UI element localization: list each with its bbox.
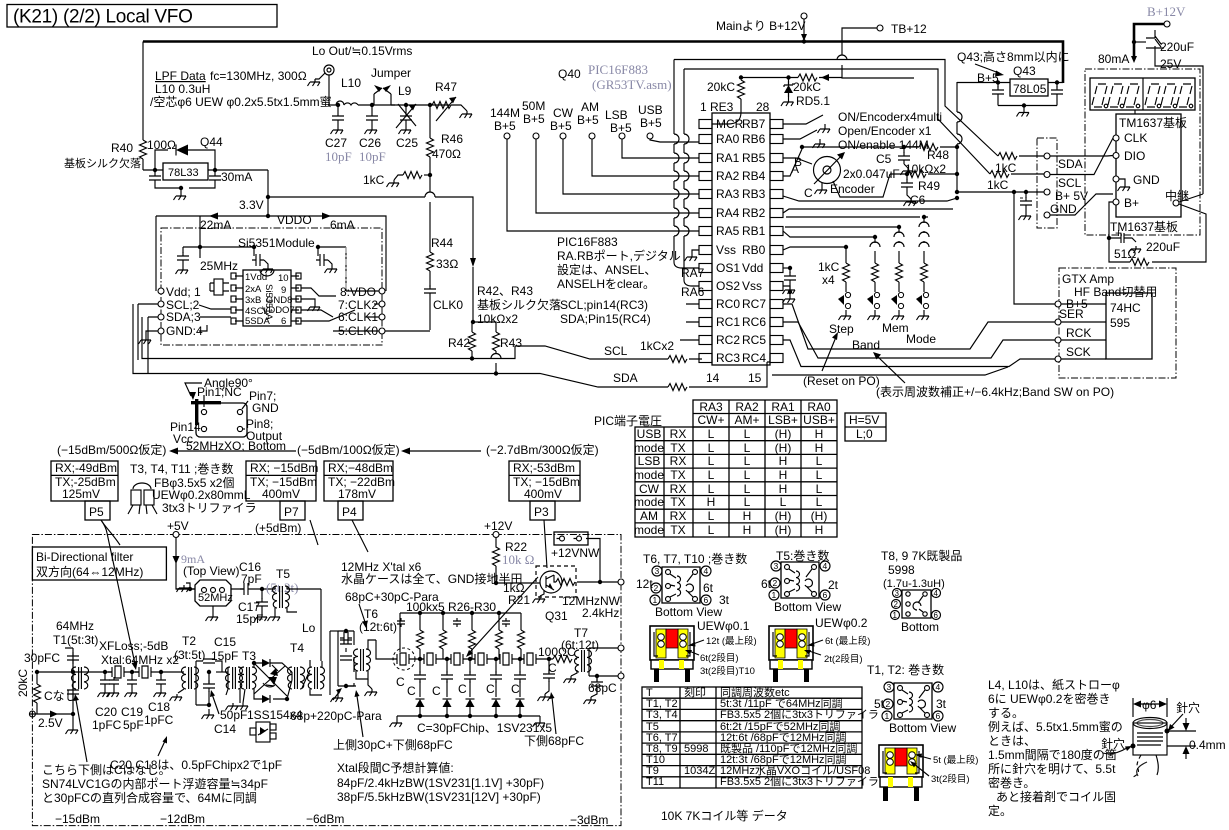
svg-text:2.4kHz: 2.4kHz bbox=[582, 606, 619, 620]
bottom view T8 bbox=[902, 590, 931, 618]
table P5 bbox=[51, 461, 118, 520]
wire main to T3 bbox=[216, 671, 228, 673]
svg-text:38pF/5.5kHzBW(1SV231[12V] +30p: 38pF/5.5kHzBW(1SV231[12V] +30pF) bbox=[337, 790, 541, 804]
svg-text:20kC: 20kC bbox=[707, 80, 735, 94]
svg-text:C15: C15 bbox=[214, 635, 236, 649]
svg-text:φ6: φ6 bbox=[1142, 698, 1157, 712]
svg-text:R44: R44 bbox=[431, 236, 453, 250]
svg-text:12t (最上段): 12t (最上段) bbox=[706, 635, 757, 647]
svg-text:RA0: RA0 bbox=[807, 400, 831, 414]
svg-text:TX: TX bbox=[670, 468, 685, 482]
0.4mm dimension bbox=[1167, 718, 1196, 759]
ground 78L05 bbox=[998, 106, 1057, 110]
wire RC6 to RCK bbox=[783, 322, 1056, 358]
svg-text:Si5351Module: Si5351Module bbox=[238, 236, 315, 250]
svg-text:RB6: RB6 bbox=[742, 132, 766, 146]
svg-text:RB5: RB5 bbox=[742, 151, 766, 165]
svg-text:(H): (H) bbox=[775, 509, 792, 523]
svg-text:RC7: RC7 bbox=[742, 297, 766, 311]
svg-text:L: L bbox=[816, 495, 823, 509]
transformer T2 bbox=[182, 667, 199, 689]
svg-text:下側68pFC: 下側68pFC bbox=[524, 734, 584, 748]
svg-text:XFLoss;-5dB: XFLoss;-5dB bbox=[99, 639, 168, 653]
regulator 78L33 bbox=[163, 163, 208, 180]
svg-text:mode: mode bbox=[634, 523, 664, 537]
svg-text:ON/enable 144M: ON/enable 144M bbox=[838, 138, 929, 152]
wire six bus lines to switches bbox=[783, 196, 957, 201]
svg-text:Lo Out/≒0.15Vrms: Lo Out/≒0.15Vrms bbox=[312, 44, 412, 58]
wire CW to RA3 bbox=[563, 139, 699, 194]
svg-text:15: 15 bbox=[748, 371, 762, 385]
resistor 51ohm bbox=[1130, 259, 1149, 266]
wire B+5 bus vertical bbox=[957, 82, 1044, 192]
svg-text:51Ω: 51Ω bbox=[1114, 247, 1136, 261]
transformer T1 bbox=[65, 648, 73, 714]
svg-text:L: L bbox=[744, 441, 751, 455]
capacitor C25 variable bbox=[405, 105, 407, 112]
wire AM to RA2 bbox=[592, 139, 699, 176]
svg-text:H: H bbox=[707, 495, 716, 509]
pin 7 CLK2 bbox=[379, 301, 385, 307]
svg-text:84pF/2.4kHzBW(1SV231[1.1V] +30: 84pF/2.4kHzBW(1SV231[1.1V] +30pF) bbox=[337, 776, 544, 790]
svg-text:L;0: L;0 bbox=[856, 427, 873, 441]
bobbin T6 drawing bbox=[650, 626, 694, 682]
IC pin boxes bbox=[699, 120, 783, 363]
wire RA7 bbox=[674, 60, 699, 269]
terminal 2.5V bbox=[29, 711, 35, 717]
svg-text:CW+: CW+ bbox=[698, 413, 725, 427]
svg-text:(Top View): (Top View) bbox=[183, 564, 239, 578]
wire B+12V rail bbox=[143, 42, 1063, 84]
svg-text:10: 10 bbox=[278, 273, 289, 284]
svg-text:mode: mode bbox=[634, 468, 664, 482]
svg-text:Band: Band bbox=[852, 338, 880, 352]
svg-text:RC5: RC5 bbox=[742, 333, 766, 347]
svg-text:C27: C27 bbox=[325, 136, 347, 150]
svg-text:Q40: Q40 bbox=[558, 67, 581, 81]
capacitor 220uF 25V bbox=[1134, 41, 1146, 43]
svg-text:RB7: RB7 bbox=[742, 117, 766, 131]
svg-text:SCL: SCL bbox=[604, 344, 628, 358]
svg-text:mode: mode bbox=[634, 495, 664, 509]
svg-text:L: L bbox=[816, 482, 823, 496]
GND8 ground bbox=[301, 299, 315, 304]
connector dash-dot box bbox=[1037, 138, 1057, 228]
wire SCL bus lower bbox=[133, 304, 767, 387]
svg-text:12t: 12t bbox=[636, 577, 653, 591]
svg-text:1kCx2: 1kCx2 bbox=[640, 339, 674, 353]
svg-text:T3, T4: T3, T4 bbox=[646, 709, 678, 721]
svg-text:3: 3 bbox=[895, 589, 900, 598]
svg-text:RX: RX bbox=[670, 454, 687, 468]
svg-text:1kC: 1kC bbox=[995, 161, 1017, 175]
IC pin stubs bbox=[235, 276, 299, 321]
terminal RCK bbox=[1055, 337, 1061, 343]
svg-text:T2: T2 bbox=[182, 634, 196, 648]
switch lever RB7 bbox=[783, 115, 825, 126]
svg-text:CLK: CLK bbox=[1124, 131, 1147, 145]
svg-text:6に UEWφ0.2を密巻き: 6に UEWφ0.2を密巻き bbox=[988, 691, 1110, 706]
svg-text:Vdd; 1: Vdd; 1 bbox=[166, 285, 201, 299]
svg-text:30pFC: 30pFC bbox=[24, 651, 60, 665]
svg-text:TX: TX bbox=[670, 523, 685, 537]
filter title box bbox=[32, 547, 166, 580]
svg-text:L: L bbox=[708, 441, 715, 455]
svg-text:6: 6 bbox=[704, 595, 709, 605]
svg-text:20kC: 20kC bbox=[793, 80, 821, 94]
svg-text:1kC: 1kC bbox=[363, 173, 385, 187]
wire T6 to ladder bbox=[376, 640, 394, 659]
capacitor at 78L33 output bbox=[214, 170, 216, 173]
capacitor C27 bbox=[337, 105, 339, 112]
svg-text:Mem: Mem bbox=[882, 321, 909, 335]
svg-text:1Vdd: 1Vdd bbox=[245, 272, 267, 283]
svg-text:Vss: Vss bbox=[742, 279, 762, 293]
svg-text:RX;-49dBm: RX;-49dBm bbox=[55, 461, 117, 475]
svg-text:x4: x4 bbox=[822, 273, 835, 287]
svg-text:10K 7Kコイル等 データ: 10K 7Kコイル等 データ bbox=[661, 808, 788, 823]
svg-text:78L05: 78L05 bbox=[1013, 82, 1047, 96]
svg-text:L: L bbox=[744, 495, 751, 509]
svg-text:L: L bbox=[744, 427, 751, 441]
svg-text:mode: mode bbox=[634, 441, 664, 455]
svg-text:100ΩC: 100ΩC bbox=[538, 645, 576, 659]
svg-text:L: L bbox=[708, 523, 715, 537]
svg-text:L: L bbox=[744, 468, 751, 482]
capacitor C26 bbox=[371, 105, 373, 112]
terminal +12V bbox=[493, 532, 499, 538]
svg-text:B+ 5V: B+ 5V bbox=[1055, 189, 1088, 203]
svg-text:TX: TX bbox=[670, 441, 685, 455]
T6 input cap bank bbox=[338, 631, 354, 686]
switch Step bbox=[838, 292, 851, 308]
wire RB4 to encoder B line bbox=[783, 149, 802, 176]
svg-text:+5V: +5V bbox=[167, 519, 189, 533]
svg-text:L: L bbox=[708, 482, 715, 496]
svg-text:C=30pFChip、1SV231x5: C=30pFChip、1SV231x5 bbox=[417, 721, 552, 735]
svg-text:1.5mm間隔で180度の箇: 1.5mm間隔で180度の箇 bbox=[988, 747, 1117, 762]
svg-text:10pF: 10pF bbox=[325, 149, 352, 164]
coil leads bbox=[1133, 755, 1141, 777]
svg-text:6: 6 bbox=[823, 590, 828, 600]
svg-text:4: 4 bbox=[704, 566, 709, 576]
capacitor Vdd bypass bbox=[783, 267, 790, 269]
svg-text:SDA: SDA bbox=[613, 371, 638, 385]
svg-text:P5: P5 bbox=[89, 505, 104, 519]
svg-text:1: 1 bbox=[893, 611, 898, 620]
svg-text:L10: L10 bbox=[341, 76, 361, 90]
capacitor bypass right bbox=[318, 247, 346, 256]
svg-text:C: C bbox=[458, 682, 467, 696]
crystal X2 64MHz bbox=[135, 666, 155, 678]
svg-text:USB: USB bbox=[637, 427, 662, 441]
svg-text:SER: SER bbox=[1059, 307, 1084, 321]
svg-text:R40: R40 bbox=[111, 141, 133, 155]
wire main 64M line bbox=[37, 671, 184, 673]
svg-text:33Ω: 33Ω bbox=[436, 257, 458, 271]
svg-text:220uF: 220uF bbox=[1146, 240, 1180, 254]
svg-text:OS2: OS2 bbox=[716, 279, 740, 293]
svg-text:C: C bbox=[804, 186, 813, 200]
capacitor C14 bbox=[208, 672, 210, 712]
svg-text:Q43: Q43 bbox=[1013, 64, 1036, 78]
capacitor C6 bbox=[905, 172, 909, 176]
IC U40 PIC16F883 body bbox=[712, 113, 770, 365]
svg-text:/空芯φ6 UEW φ0.2x5.5tx1.5mm蜜: /空芯φ6 UEW φ0.2x5.5tx1.5mm蜜 bbox=[150, 94, 332, 109]
svg-text:UEWφ0.1: UEWφ0.1 bbox=[697, 619, 750, 633]
svg-text:3t: 3t bbox=[936, 697, 947, 711]
resistor R29 bbox=[496, 630, 503, 649]
svg-text:ANSELHをclear。: ANSELHをclear。 bbox=[557, 277, 655, 291]
svg-text:L: L bbox=[744, 454, 751, 468]
transistor Q31 bbox=[536, 566, 576, 597]
svg-text:RB0: RB0 bbox=[742, 243, 766, 257]
svg-text:Bottom View: Bottom View bbox=[655, 605, 722, 619]
table P3 bbox=[509, 461, 580, 520]
transformer T6 bbox=[354, 649, 371, 671]
svg-text:T5:巻き数: T5:巻き数 bbox=[776, 548, 829, 563]
svg-text:RA.RBポート,デジタル: RA.RBポート,デジタル bbox=[557, 248, 681, 263]
svg-text:L: L bbox=[816, 468, 823, 482]
svg-text:C6: C6 bbox=[910, 193, 926, 207]
svg-text:RB3: RB3 bbox=[742, 187, 766, 201]
svg-text:T11: T11 bbox=[646, 776, 664, 788]
capacitor module bypass left bbox=[183, 247, 200, 253]
crystal osc 52MHz bbox=[195, 580, 231, 606]
svg-text:RA5: RA5 bbox=[716, 224, 740, 238]
svg-text:SCL: SCL bbox=[1058, 176, 1082, 190]
svg-text:C: C bbox=[486, 682, 495, 696]
table P7 bbox=[246, 461, 316, 520]
wire 50M to RA4 bbox=[536, 139, 699, 213]
svg-text:UEWφ0.2: UEWφ0.2 bbox=[815, 616, 868, 630]
svg-text:3t(2段目)T10: 3t(2段目)T10 bbox=[700, 665, 755, 677]
svg-text:5t (最上段): 5t (最上段) bbox=[933, 754, 978, 766]
resistor 20kC bias bbox=[34, 684, 41, 703]
svg-text:2: 2 bbox=[894, 600, 899, 609]
svg-text:SCK: SCK bbox=[1066, 345, 1091, 359]
svg-text:68p+220pC-Para: 68p+220pC-Para bbox=[290, 709, 382, 723]
svg-text:RB4: RB4 bbox=[742, 169, 766, 183]
svg-text:5998: 5998 bbox=[684, 743, 708, 755]
svg-text:上側30pC+下側68pFC: 上側30pC+下側68pFC bbox=[333, 738, 453, 752]
svg-text:6: 6 bbox=[281, 316, 286, 327]
capacitor B+5V rail bbox=[1024, 190, 1028, 194]
svg-text:CW: CW bbox=[639, 482, 660, 496]
svg-text:50pF: 50pF bbox=[220, 708, 247, 722]
resistor R49 line bbox=[890, 173, 957, 175]
pin2 SCL bbox=[158, 301, 164, 307]
svg-text:LSB: LSB bbox=[605, 108, 628, 122]
svg-text:Bottom View: Bottom View bbox=[774, 600, 841, 614]
pin 6 CLK1 bbox=[379, 314, 385, 320]
svg-text:RA1: RA1 bbox=[716, 151, 740, 165]
wire CLK0 chain down bbox=[429, 175, 431, 252]
svg-text:所に針穴を明けて、5.5t: 所に針穴を明けて、5.5t bbox=[988, 761, 1116, 776]
svg-text:8:VDO: 8:VDO bbox=[340, 285, 376, 299]
svg-text:5pF: 5pF bbox=[123, 718, 144, 732]
junction dots on LPF rail bbox=[336, 103, 340, 107]
svg-text:R46: R46 bbox=[441, 132, 463, 146]
svg-text:C26: C26 bbox=[359, 136, 381, 150]
svg-text:−3dBm: −3dBm bbox=[570, 813, 608, 827]
svg-text:RX;−48dBm: RX;−48dBm bbox=[328, 461, 393, 475]
wire left vertical from rail bbox=[142, 42, 144, 141]
svg-text:+12VNW: +12VNW bbox=[551, 546, 600, 560]
svg-text:3tx3トリファイラ: 3tx3トリファイラ bbox=[162, 501, 257, 515]
svg-text:Bi-Directional filter: Bi-Directional filter bbox=[36, 550, 133, 564]
svg-text:RB1: RB1 bbox=[742, 224, 766, 238]
svg-text:C: C bbox=[396, 675, 405, 689]
svg-text:Jumper: Jumper bbox=[371, 66, 411, 80]
svg-text:L: L bbox=[708, 454, 715, 468]
svg-text:Cなし: Cなし bbox=[44, 689, 77, 703]
wire SDA to DIO bbox=[1050, 155, 1113, 158]
resistor R30 bbox=[518, 630, 525, 649]
switch lever RB6 bbox=[783, 130, 820, 141]
svg-text:こちら下側はCはなし。: こちら下側はCはなし。 bbox=[42, 763, 171, 777]
svg-text:30mA: 30mA bbox=[221, 170, 252, 184]
svg-text:RX: RX bbox=[670, 427, 687, 441]
svg-text:RCK: RCK bbox=[1066, 326, 1091, 340]
svg-text:RA4: RA4 bbox=[716, 206, 740, 220]
capacitor rail bypass bbox=[397, 618, 405, 627]
pin1 label bbox=[158, 288, 164, 294]
svg-text:Bottom: Bottom bbox=[901, 620, 939, 634]
svg-text:B+: B+ bbox=[1124, 196, 1139, 210]
svg-text:RC6: RC6 bbox=[742, 315, 766, 329]
svg-text:6t (最上段): 6t (最上段) bbox=[825, 635, 870, 647]
module dashed bottom note: gray verticals bbox=[345, 247, 347, 291]
svg-text:DIO: DIO bbox=[1124, 149, 1145, 163]
svg-text:RC1: RC1 bbox=[716, 315, 740, 329]
svg-text:6: 6 bbox=[936, 711, 941, 721]
svg-text:RC0: RC0 bbox=[716, 297, 740, 311]
svg-text:H: H bbox=[815, 523, 824, 537]
ferrite bead drawing bbox=[131, 490, 141, 505]
svg-text:3: 3 bbox=[774, 561, 779, 571]
svg-text:1: 1 bbox=[653, 595, 658, 605]
svg-text:L: L bbox=[708, 468, 715, 482]
svg-text:LPF Data: LPF Data bbox=[155, 69, 206, 83]
svg-text:6t:2t /15pFで52MHz同調: 6t:2t /15pFで52MHz同調 bbox=[720, 719, 840, 733]
svg-text:(3t:5t): (3t:5t) bbox=[174, 648, 205, 662]
svg-text:Lo: Lo bbox=[302, 621, 316, 635]
transformer T7 bbox=[575, 650, 592, 672]
svg-text:3t(2段目): 3t(2段目) bbox=[931, 773, 970, 785]
svg-text:14: 14 bbox=[706, 371, 720, 385]
svg-text:T5: T5 bbox=[276, 567, 290, 581]
capacitor 78L05 out bbox=[997, 83, 999, 88]
wire switch verticals with humps bbox=[922, 215, 926, 219]
svg-text:2t: 2t bbox=[828, 578, 839, 592]
svg-text:C: C bbox=[407, 684, 416, 698]
svg-text:6t(2段目): 6t(2段目) bbox=[700, 652, 739, 664]
ground Vss right bbox=[783, 286, 790, 290]
bobbin T5 drawing bbox=[769, 626, 813, 682]
svg-text:L9: L9 bbox=[398, 84, 412, 98]
svg-text:L10 0.3uH: L10 0.3uH bbox=[155, 82, 210, 96]
bottom view T5 bbox=[781, 562, 819, 598]
svg-text:5t:3t /11pF で64MHz同調: 5t:3t /11pF で64MHz同調 bbox=[720, 696, 843, 710]
switch Mode bbox=[916, 292, 929, 308]
crystal ladder X3..X8 bbox=[393, 653, 413, 665]
svg-text:H: H bbox=[815, 441, 824, 455]
svg-text:(H): (H) bbox=[775, 427, 792, 441]
crystal X1 64MHz bbox=[108, 666, 128, 678]
svg-text:(H): (H) bbox=[775, 523, 792, 537]
wire USB to RA0 bbox=[650, 139, 699, 142]
svg-text:T8, 9 7K既製品: T8, 9 7K既製品 bbox=[881, 549, 962, 563]
svg-text:RD5.1: RD5.1 bbox=[796, 94, 830, 108]
wire +5V feed bbox=[176, 538, 195, 590]
svg-text:R47: R47 bbox=[435, 80, 457, 94]
svg-text:12t:6t /68pFで12MHz同調: 12t:6t /68pFで12MHz同調 bbox=[720, 730, 847, 744]
svg-text:5t: 5t bbox=[874, 697, 885, 711]
svg-text:144M: 144M bbox=[490, 106, 520, 120]
svg-text:B+5: B+5 bbox=[494, 119, 516, 133]
svg-text:6t: 6t bbox=[761, 577, 772, 591]
svg-text:PIC16F883: PIC16F883 bbox=[588, 62, 648, 77]
svg-text:T4: T4 bbox=[290, 641, 304, 655]
svg-text:Bottom View: Bottom View bbox=[889, 721, 956, 735]
svg-text:(H): (H) bbox=[775, 441, 792, 455]
svg-text:基板シルク欠落: 基板シルク欠落 bbox=[477, 297, 561, 312]
svg-text:80mA: 80mA bbox=[1098, 52, 1129, 66]
svg-text:T6, T7, T10 ;巻き数: T6, T7, T10 ;巻き数 bbox=[643, 551, 747, 566]
transformer T5 bbox=[273, 586, 290, 608]
capacitor C19 bbox=[127, 672, 137, 690]
svg-text:3xB: 3xB bbox=[245, 295, 261, 306]
wire SCL top run bbox=[684, 69, 990, 174]
svg-text:(表示周波数補正+/−6.4kHz;Band SW on P: (表示周波数補正+/−6.4kHz;Band SW on PO) bbox=[876, 384, 1114, 399]
svg-text:H: H bbox=[779, 468, 788, 482]
svg-text:設定は、ANSEL、: 設定は、ANSEL、 bbox=[557, 262, 656, 277]
svg-text:15pF: 15pF bbox=[211, 649, 238, 663]
svg-text:SDA;Pin15(RC4): SDA;Pin15(RC4) bbox=[560, 312, 651, 326]
svg-text:L: L bbox=[780, 495, 787, 509]
ground Vss left bbox=[692, 250, 699, 254]
capacitor 220uF lower bbox=[1109, 202, 1130, 262]
IC Si5351A bbox=[243, 270, 291, 326]
svg-text:GND: GND bbox=[1133, 173, 1160, 187]
svg-text:78L33: 78L33 bbox=[168, 167, 199, 179]
svg-text:RX: RX bbox=[670, 509, 687, 523]
svg-text:L: L bbox=[816, 454, 823, 468]
svg-text:Q43;高さ8mm以内に: Q43;高さ8mm以内に bbox=[957, 49, 1070, 64]
svg-text:5998: 5998 bbox=[888, 563, 915, 577]
svg-text:H: H bbox=[779, 454, 788, 468]
capacitor C18 bbox=[156, 672, 166, 690]
capacitor 68pC bbox=[595, 674, 599, 678]
svg-text:C19: C19 bbox=[121, 705, 143, 719]
svg-text:C: C bbox=[511, 682, 520, 696]
wire encoder common to R49 line bbox=[833, 174, 890, 197]
wire SDA bus upper bbox=[142, 317, 702, 359]
svg-text:Vdd: Vdd bbox=[742, 261, 763, 275]
wire RC7 to SER bbox=[783, 304, 1056, 349]
svg-text:B+5: B+5 bbox=[550, 119, 572, 133]
svg-text:RA2: RA2 bbox=[716, 169, 740, 183]
GTX dash-dot box bbox=[1059, 268, 1176, 378]
svg-text:3: 3 bbox=[655, 566, 660, 576]
svg-text:R21: R21 bbox=[508, 593, 530, 607]
svg-text:Q44: Q44 bbox=[200, 135, 223, 149]
svg-text:74HC: 74HC bbox=[1110, 301, 1141, 315]
bottom view T1 bbox=[894, 683, 932, 719]
svg-text:Xtal段間C予想計算値:: Xtal段間C予想計算値: bbox=[337, 760, 454, 775]
svg-text:22mA: 22mA bbox=[200, 218, 231, 232]
